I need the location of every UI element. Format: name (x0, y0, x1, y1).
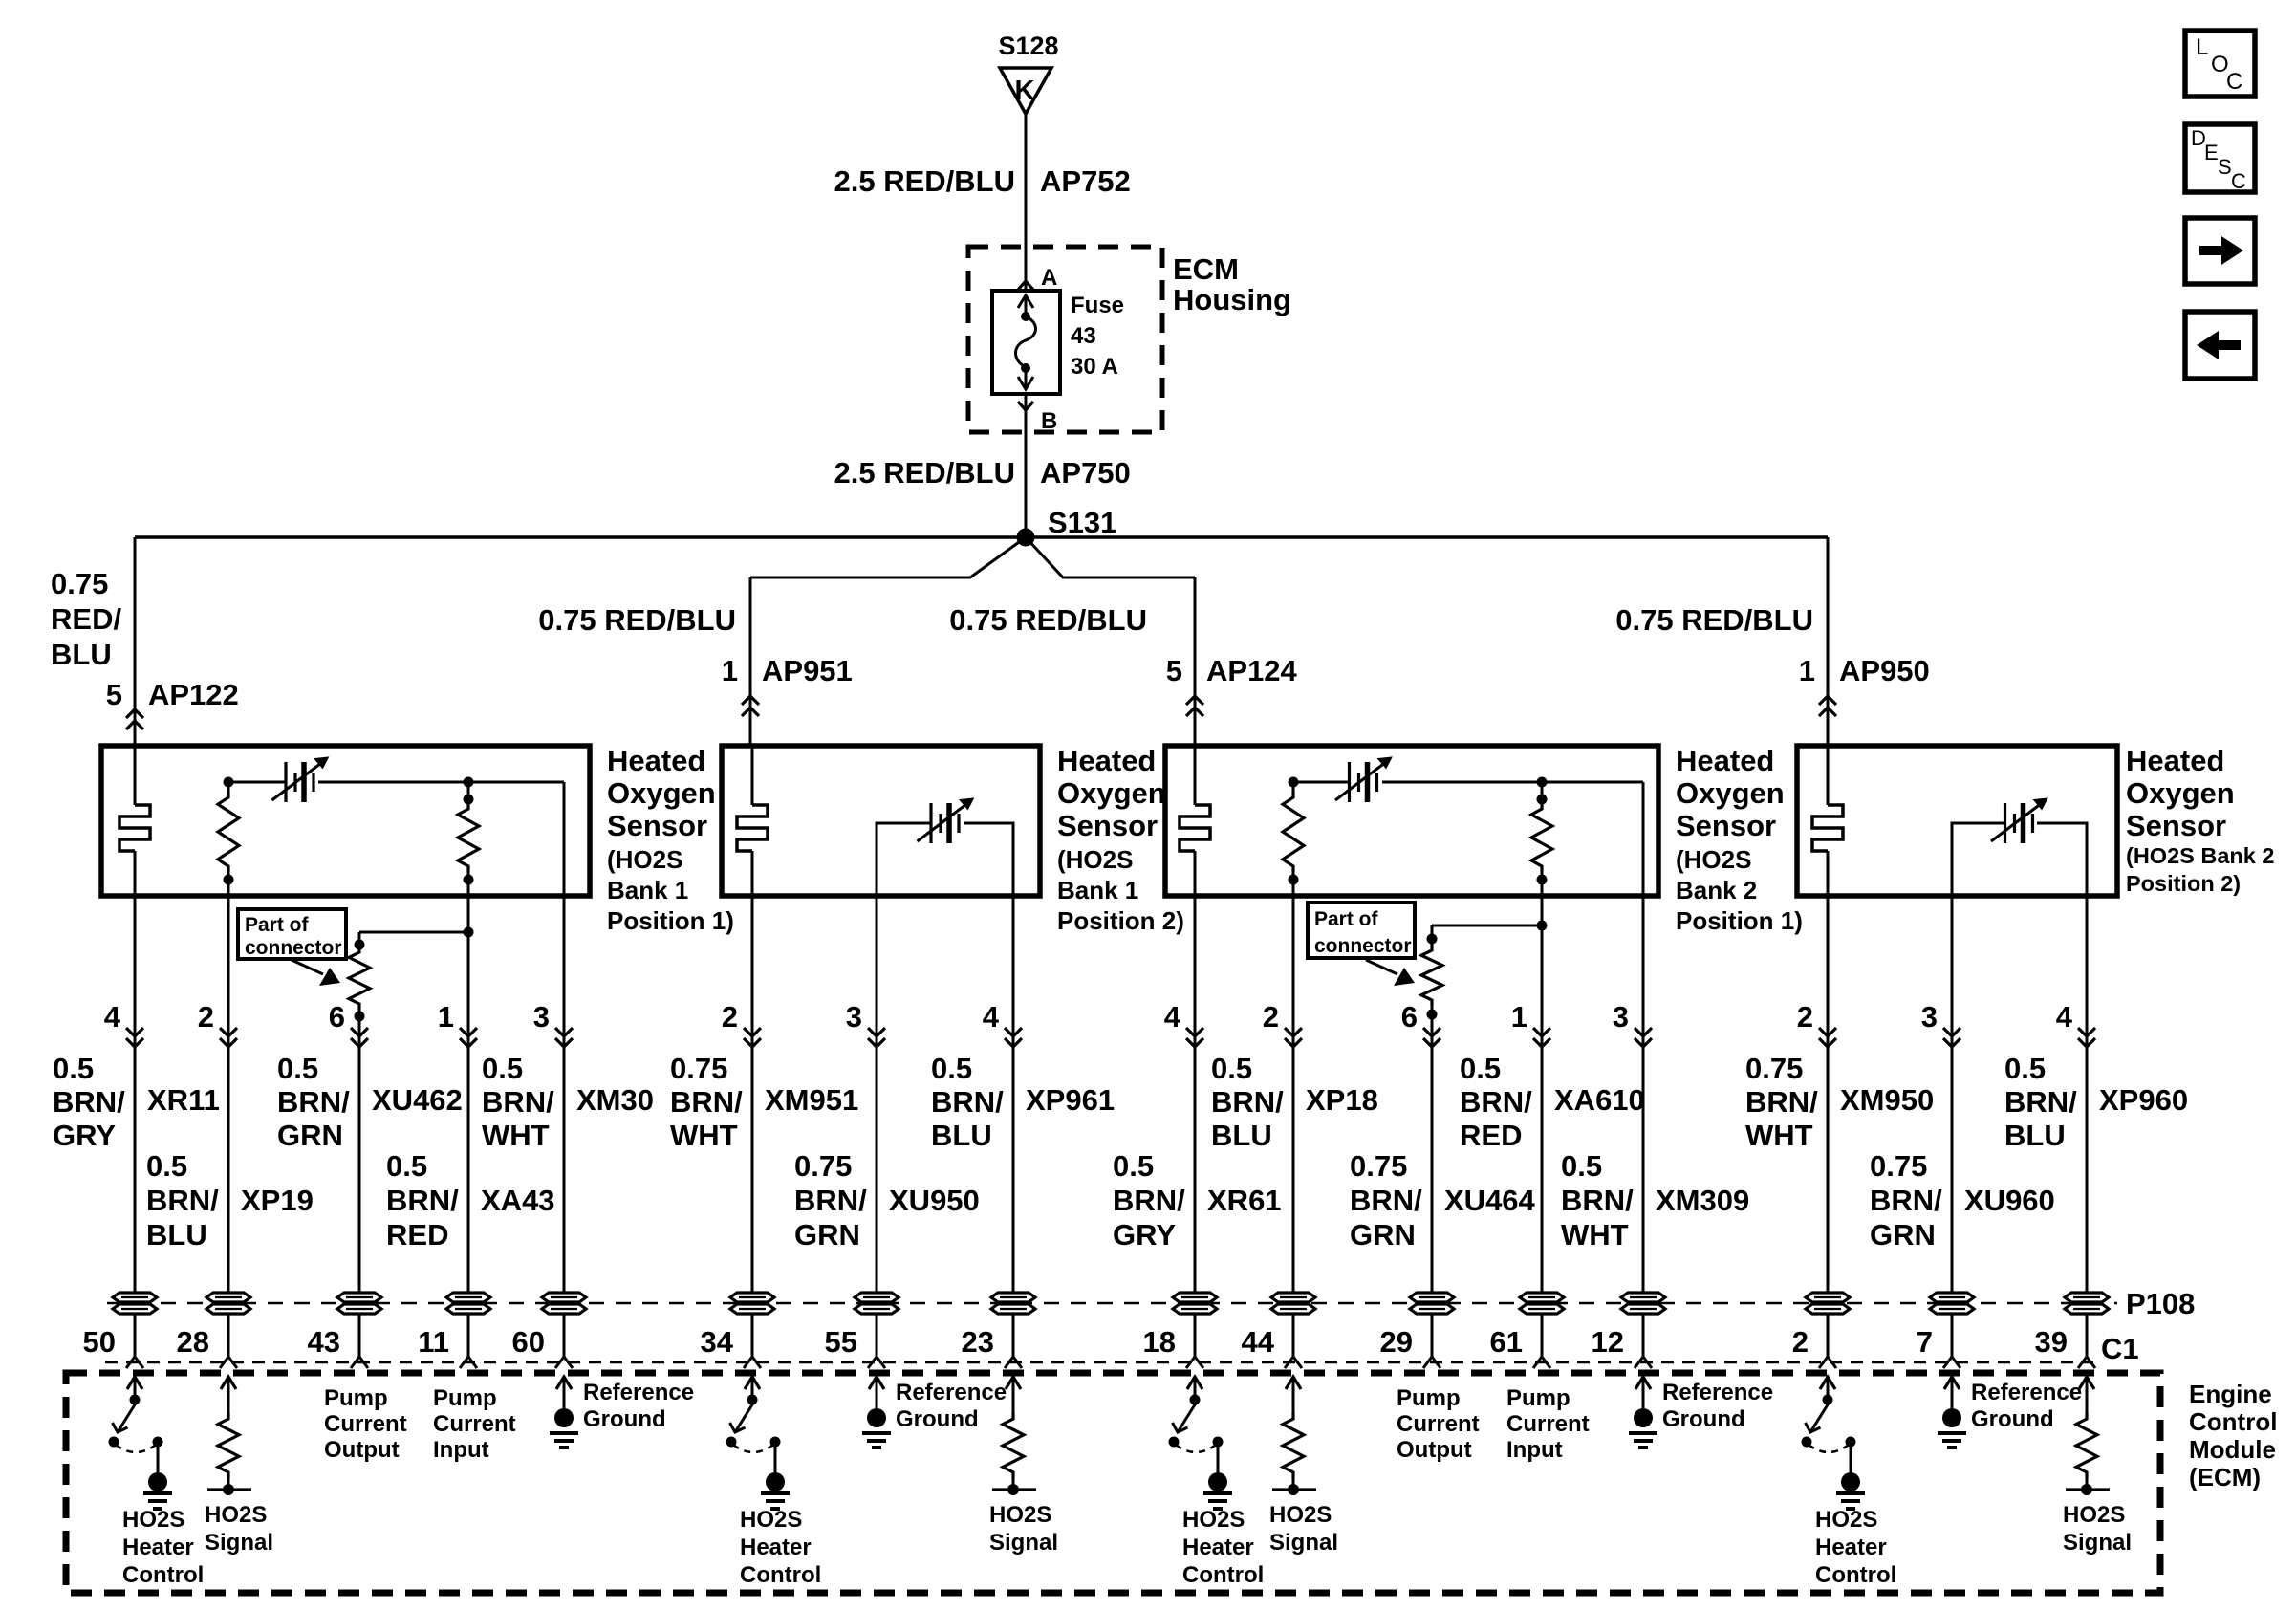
svg-text:Signal: Signal (205, 1530, 273, 1556)
svg-text:0.5: 0.5 (2004, 1052, 2046, 1085)
svg-text:Current: Current (1397, 1411, 1480, 1437)
icon box forward arrow (2185, 218, 2255, 284)
inline terminals on AP950 (1819, 696, 1836, 705)
svg-text:Engine: Engine (2189, 1380, 2272, 1408)
internal wire B2S1 (cell bus) (1293, 781, 1349, 784)
icon box LOC (2185, 31, 2255, 97)
svg-text:Reference: Reference (1662, 1380, 1773, 1405)
svg-text:7: 7 (1917, 1325, 1933, 1359)
svg-text:BRN/: BRN/ (53, 1085, 125, 1119)
svg-text:0.75: 0.75 (51, 567, 108, 600)
wire XU950 (sensor pin 3 to ECM 55) (876, 896, 878, 1357)
svg-text:XP19: XP19 (241, 1184, 314, 1217)
svg-text:4: 4 (1164, 1000, 1181, 1034)
svg-text:Position 1): Position 1) (607, 906, 734, 935)
svg-text:0.75: 0.75 (1745, 1052, 1803, 1085)
svg-text:0.5: 0.5 (1211, 1052, 1252, 1085)
svg-text:55: 55 (825, 1325, 857, 1359)
svg-text:BRN/: BRN/ (1113, 1184, 1185, 1217)
part of connector arrow (B2S1) (1366, 960, 1397, 974)
svg-text:Heater: Heater (122, 1535, 194, 1560)
ECM connector C1 terminal (XM30) (555, 1357, 573, 1368)
wire XA610 (B2S1 pin 1 to ECM 61) (1541, 896, 1544, 1357)
svg-text:Heated: Heated (2126, 744, 2224, 777)
svg-text:3: 3 (1921, 1000, 1938, 1034)
svg-text:0.5: 0.5 (53, 1052, 94, 1085)
inline terminal chevrons (XM951) (744, 1028, 761, 1036)
svg-text:Output: Output (324, 1437, 400, 1463)
svg-text:3: 3 (1613, 1000, 1629, 1034)
svg-text:BRN/: BRN/ (1745, 1085, 1818, 1119)
svg-text:Heated: Heated (1676, 744, 1774, 777)
wire XA43 (B1S1 pin 1 to ECM 11) (467, 896, 470, 1357)
svg-text:GRN: GRN (277, 1119, 343, 1152)
svg-text:E: E (2204, 141, 2219, 164)
svg-text:HO2S: HO2S (1815, 1507, 1877, 1533)
inline terminal chevrons (XP961) (1005, 1028, 1022, 1036)
svg-text:0.5: 0.5 (146, 1149, 187, 1183)
inline terminal chevrons (XM30) (555, 1028, 573, 1036)
heated oxygen sensor box (Bank 1 Position 1) (101, 746, 590, 896)
sensor cell B2S1 (1348, 762, 1351, 802)
svg-text:XM951: XM951 (765, 1083, 858, 1117)
svg-text:0.75 RED/BLU: 0.75 RED/BLU (538, 603, 736, 637)
svg-text:WHT: WHT (482, 1119, 550, 1152)
resistor HO2S signal (ECM pin 23) (1006, 1377, 1021, 1389)
svg-text:XU464: XU464 (1444, 1184, 1536, 1217)
svg-text:Oxygen: Oxygen (1057, 776, 1166, 810)
svg-text:Position 2): Position 2) (2126, 871, 2241, 896)
internal wire B1S1 to pin 3 (563, 782, 566, 896)
svg-text:XA610: XA610 (1554, 1083, 1645, 1117)
svg-text:43: 43 (1071, 323, 1096, 349)
svg-text:Output: Output (1397, 1437, 1472, 1463)
internal wire B1S1 (cell bus) (228, 781, 286, 784)
svg-text:HO2S: HO2S (740, 1507, 802, 1533)
svg-text:60: 60 (512, 1325, 545, 1359)
svg-text:BRN/: BRN/ (277, 1085, 350, 1119)
svg-text:BRN/: BRN/ (482, 1085, 554, 1119)
svg-text:A: A (1041, 265, 1057, 291)
svg-text:0.5: 0.5 (277, 1052, 318, 1085)
svg-text:Control: Control (122, 1562, 204, 1588)
wire AP122 (bus to HO2S B1S1 pin 5) (134, 537, 137, 746)
svg-text:XR11: XR11 (147, 1083, 220, 1117)
svg-text:0.5: 0.5 (1113, 1149, 1154, 1183)
svg-text:Pump: Pump (324, 1385, 388, 1411)
svg-text:(HO2S Bank 2: (HO2S Bank 2 (2126, 843, 2274, 868)
inline terminal chevrons (XA43) (460, 1028, 477, 1036)
dashed connector line C1 (105, 1361, 2093, 1364)
pin A of ECM housing (1018, 281, 1033, 290)
reference ground (ECM pin 60) (556, 1377, 572, 1389)
svg-text:2.5 RED/BLU: 2.5 RED/BLU (834, 456, 1015, 490)
inline connector P108 (XA43) (446, 1293, 490, 1302)
wire XU960 (sensor pin 3 to ECM 7) (1951, 896, 1954, 1357)
wire XM951 (sensor pin 2 to ECM 34) (751, 896, 754, 1357)
svg-text:BLU: BLU (2004, 1119, 2066, 1152)
inline connector P108 (XM309) (1621, 1293, 1665, 1302)
wire XP961 (sensor pin 4 to ECM 23) (1012, 896, 1015, 1357)
svg-text:XP18: XP18 (1306, 1083, 1378, 1117)
svg-text:BRN/: BRN/ (1870, 1184, 1942, 1217)
ECM connector C1 terminal (XP18) (1285, 1357, 1302, 1368)
ECM connector C1 terminal (XU960) (1943, 1357, 1960, 1368)
svg-text:(ECM): (ECM) (2189, 1463, 2261, 1491)
svg-text:XU950: XU950 (889, 1184, 980, 1217)
internal cell wire B2S2 (1952, 823, 2004, 896)
part of connector callout box (B2S1) (1308, 903, 1415, 958)
inline terminal chevrons (XU462) (351, 1028, 368, 1036)
svg-text:BRN/: BRN/ (146, 1184, 219, 1217)
svg-text:RED/: RED/ (51, 602, 121, 636)
svg-text:Housing: Housing (1173, 283, 1291, 316)
svg-text:BRN/: BRN/ (794, 1184, 867, 1217)
svg-text:23: 23 (962, 1325, 994, 1359)
inline terminal chevrons (XP19) (220, 1028, 237, 1036)
internal cell wire B1S2 (877, 823, 931, 896)
svg-text:HO2S: HO2S (122, 1507, 184, 1533)
inline connector P108 (XP960) (2065, 1293, 2109, 1302)
svg-text:5: 5 (1166, 654, 1182, 687)
dashed connector line P108 (107, 1302, 2117, 1305)
svg-text:BRN/: BRN/ (1561, 1184, 1634, 1217)
wire XR11 (sensor pin 4 to ECM 50) (134, 896, 137, 1357)
svg-text:0.75: 0.75 (794, 1149, 852, 1183)
svg-text:ECM: ECM (1173, 252, 1239, 286)
svg-text:Ground: Ground (583, 1406, 666, 1432)
svg-text:Signal: Signal (1269, 1530, 1338, 1556)
svg-text:BLU: BLU (51, 638, 112, 671)
wire XM950 (sensor pin 2 to ECM 2) (1827, 896, 1830, 1357)
svg-text:RED: RED (386, 1218, 448, 1252)
wire XM309 (sensor pin 3 to ECM 12) (1642, 896, 1645, 1357)
resistor HO2S signal (ECM pin 39) (2079, 1377, 2094, 1389)
svg-text:Heated: Heated (1057, 744, 1156, 777)
wire XP18 (sensor pin 2 to ECM 44) (1292, 896, 1295, 1357)
pin B of ECM housing (1018, 402, 1033, 410)
inline terminal chevrons (XU960) (1943, 1028, 1960, 1036)
svg-text:Sensor: Sensor (2126, 809, 2226, 842)
svg-text:HO2S: HO2S (1269, 1502, 1332, 1528)
svg-text:Reference: Reference (1971, 1380, 2082, 1405)
svg-text:2: 2 (1263, 1000, 1279, 1034)
svg-text:Sensor: Sensor (607, 809, 707, 842)
svg-text:GRN: GRN (794, 1218, 860, 1252)
svg-text:WHT: WHT (1745, 1119, 1813, 1152)
ECM connector C1 terminal (XA43) (460, 1357, 477, 1368)
svg-text:GRN: GRN (1870, 1218, 1936, 1252)
svg-text:Current: Current (1506, 1411, 1590, 1437)
reference ground (ECM pin 7) (1944, 1377, 1960, 1389)
svg-text:XP960: XP960 (2099, 1083, 2188, 1117)
svg-text:RED: RED (1460, 1119, 1522, 1152)
svg-text:XM309: XM309 (1656, 1184, 1749, 1217)
svg-text:HO2S: HO2S (2063, 1502, 2125, 1528)
ECM connector C1 terminal (XM950) (1819, 1357, 1836, 1368)
svg-text:C: C (2231, 169, 2246, 193)
inline connector P108 (XR11) (113, 1293, 157, 1302)
svg-text:S128: S128 (998, 32, 1058, 60)
inline terminal chevrons (XM950) (1819, 1028, 1836, 1036)
svg-text:BLU: BLU (1211, 1119, 1272, 1152)
svg-text:11: 11 (418, 1325, 449, 1359)
wire AP750 (fuse B to splice S131) (1025, 394, 1028, 537)
svg-text:AP950: AP950 (1839, 654, 1930, 687)
svg-text:Pump: Pump (1397, 1385, 1461, 1411)
svg-text:3: 3 (533, 1000, 550, 1034)
svg-text:44: 44 (1242, 1325, 1275, 1359)
switch HO2S heater control (ECM pin 18) (1187, 1377, 1202, 1389)
svg-text:Reference: Reference (896, 1380, 1007, 1405)
svg-text:34: 34 (701, 1325, 734, 1359)
svg-text:XA43: XA43 (481, 1184, 555, 1217)
svg-text:Current: Current (324, 1411, 407, 1437)
svg-text:XP961: XP961 (1026, 1083, 1115, 1117)
svg-text:XR61: XR61 (1207, 1184, 1282, 1217)
sensor cell B1S1 (284, 762, 287, 802)
svg-text:Oxygen: Oxygen (2126, 776, 2235, 810)
svg-text:BRN/: BRN/ (670, 1085, 743, 1119)
wire AP752 (S128 to ECM housing) (1025, 114, 1028, 291)
heated oxygen sensor box (Bank 2 Position 1) (1165, 746, 1658, 896)
svg-text:Reference: Reference (583, 1380, 694, 1405)
svg-text:XU960: XU960 (1964, 1184, 2055, 1217)
splice branch diagonals and mid bus (750, 537, 1026, 577)
heated oxygen sensor box (Bank 1 Position 2) (722, 746, 1040, 896)
svg-text:AP124: AP124 (1206, 654, 1298, 687)
svg-text:L: L (2196, 34, 2208, 60)
ECM connector C1 terminal (XP960) (2078, 1357, 2095, 1368)
wire XM30 (sensor pin 3 to ECM 60) (563, 896, 566, 1357)
inline terminals on AP124 (1186, 696, 1203, 705)
wire AP950 (bus to HO2S B2S2 pin 1) (1827, 537, 1830, 746)
svg-text:BRN/: BRN/ (2004, 1085, 2077, 1119)
svg-text:C1: C1 (2101, 1332, 2139, 1365)
svg-text:WHT: WHT (670, 1119, 738, 1152)
svg-text:Control: Control (2189, 1407, 2277, 1436)
svg-text:50: 50 (83, 1325, 116, 1359)
svg-text:Heater: Heater (1815, 1535, 1887, 1560)
switch HO2S heater control (ECM pin 2) (1820, 1377, 1835, 1389)
svg-text:BRN/: BRN/ (386, 1184, 459, 1217)
svg-text:XU462: XU462 (372, 1083, 463, 1117)
inline connector P108 (XU462) (337, 1293, 381, 1302)
inline connector P108 (XU950) (855, 1293, 899, 1302)
part of connector resistor (B1S1 pin 6) (355, 940, 365, 950)
svg-text:1: 1 (1799, 654, 1815, 687)
svg-text:BRN/: BRN/ (1211, 1085, 1284, 1119)
reference ground (ECM pin 55) (869, 1377, 884, 1389)
svg-text:2: 2 (1797, 1000, 1813, 1034)
svg-text:AP750: AP750 (1040, 456, 1131, 490)
inline terminals on AP951 (742, 696, 759, 705)
svg-text:Oxygen: Oxygen (1676, 776, 1785, 810)
inline terminal chevrons (XM309) (1635, 1028, 1652, 1036)
icon box DESC (2185, 124, 2255, 192)
ECM connector C1 terminal (XM309) (1635, 1357, 1652, 1368)
heater element B1S1 (134, 746, 137, 805)
inline terminal chevrons (XA610) (1533, 1028, 1550, 1036)
svg-text:connector: connector (245, 937, 342, 959)
svg-text:Bank 1: Bank 1 (1057, 876, 1138, 904)
svg-text:(HO2S: (HO2S (1676, 845, 1751, 874)
ECM connector C1 terminal (XA610) (1533, 1357, 1550, 1368)
ECM connector C1 terminal (XR11) (126, 1357, 143, 1368)
ECM connector C1 terminal (XP19) (220, 1357, 237, 1368)
resistor HO2S signal (ECM pin 44) (1286, 1377, 1301, 1389)
svg-text:1: 1 (1511, 1000, 1527, 1034)
resistor HO2S signal (ECM pin 28) (221, 1377, 236, 1389)
part of connector arrow (B1S1) (292, 960, 323, 974)
inline connector P108 (XU464) (1410, 1293, 1454, 1302)
svg-text:Input: Input (433, 1437, 489, 1463)
svg-text:18: 18 (1143, 1325, 1176, 1359)
inline connector P108 (XR61) (1173, 1293, 1217, 1302)
ECM connector C1 terminal (XU462) (351, 1357, 368, 1368)
svg-text:Part of: Part of (245, 914, 310, 936)
svg-text:0.5: 0.5 (931, 1052, 972, 1085)
svg-text:12: 12 (1592, 1325, 1624, 1359)
svg-text:43: 43 (308, 1325, 340, 1359)
svg-text:C: C (2226, 69, 2242, 95)
svg-text:AP752: AP752 (1040, 164, 1131, 198)
wire AP124 (bus to HO2S B2S1 pin 5) (1194, 577, 1197, 746)
reference ground (ECM pin 12) (1635, 1377, 1651, 1389)
svg-text:0.5: 0.5 (1460, 1052, 1501, 1085)
svg-text:Pump: Pump (433, 1385, 497, 1411)
svg-text:4: 4 (104, 1000, 121, 1034)
inline connector P108 (XM30) (542, 1293, 586, 1302)
ECM connector C1 terminal (XM951) (744, 1357, 761, 1368)
svg-text:Heater: Heater (1182, 1535, 1254, 1560)
ECM connector C1 terminal (XP961) (1005, 1357, 1022, 1368)
svg-text:BLU: BLU (146, 1218, 207, 1252)
heater element B1S2 (751, 746, 754, 805)
inline terminal chevrons (XR11) (126, 1028, 143, 1036)
inline terminal chevrons (XU464) (1423, 1028, 1440, 1036)
svg-text:HO2S: HO2S (1182, 1507, 1245, 1533)
ECM connector C1 terminal (XU950) (868, 1357, 885, 1368)
svg-text:Part of: Part of (1314, 908, 1379, 930)
svg-text:Signal: Signal (989, 1530, 1058, 1556)
svg-text:Heater: Heater (740, 1535, 812, 1560)
svg-text:Ground: Ground (1971, 1406, 2054, 1432)
svg-text:Pump: Pump (1506, 1385, 1570, 1411)
icon box back arrow (2185, 312, 2255, 379)
svg-text:WHT: WHT (1561, 1218, 1629, 1252)
svg-text:XM950: XM950 (1840, 1083, 1934, 1117)
svg-text:0.75 RED/BLU: 0.75 RED/BLU (1615, 603, 1813, 637)
svg-text:Signal: Signal (2063, 1530, 2132, 1556)
svg-text:Ground: Ground (1662, 1406, 1745, 1432)
svg-text:1: 1 (722, 654, 738, 687)
svg-text:0.75: 0.75 (1350, 1149, 1407, 1183)
svg-text:B: B (1041, 408, 1057, 434)
svg-text:BRN/: BRN/ (1460, 1085, 1532, 1119)
svg-text:0.75 RED/BLU: 0.75 RED/BLU (949, 603, 1147, 637)
svg-text:AP122: AP122 (148, 678, 239, 711)
svg-text:Fuse: Fuse (1071, 293, 1124, 318)
ECM connector C1 terminal (XU464) (1423, 1357, 1440, 1368)
svg-text:Sensor: Sensor (1057, 809, 1158, 842)
fuse 43 30 A (992, 291, 1060, 394)
switch HO2S heater control (ECM pin 50) (127, 1377, 142, 1389)
svg-text:0.5: 0.5 (482, 1052, 523, 1085)
part of connector resistor (B2S1 pin 6) (1427, 934, 1438, 945)
internal resistor B1S1 left (pin 2) (224, 777, 234, 788)
svg-text:39: 39 (2035, 1325, 2068, 1359)
svg-text:S: S (2218, 155, 2232, 179)
inline terminals on AP122 (126, 709, 143, 718)
wire AP951 (bus to HO2S B1S2 pin 1) (749, 577, 752, 746)
svg-text:0.75: 0.75 (1870, 1149, 1927, 1183)
heated oxygen sensor box (Bank 2 Position 2) (1797, 746, 2117, 896)
internal resistor B2S1 left (pin 2) (1289, 777, 1299, 788)
svg-text:Sensor: Sensor (1676, 809, 1776, 842)
svg-text:XM30: XM30 (576, 1083, 654, 1117)
svg-text:P108: P108 (2126, 1287, 2195, 1320)
heater element B2S2 (1827, 746, 1830, 805)
svg-text:29: 29 (1380, 1325, 1413, 1359)
engine control module dashed box (66, 1373, 2160, 1593)
svg-text:Position 1): Position 1) (1676, 906, 1803, 935)
inline terminal chevrons (XP18) (1285, 1028, 1302, 1036)
bus wire from S131 (left to AP122, right to AP950) (135, 535, 1828, 539)
svg-text:2.5 RED/BLU: 2.5 RED/BLU (834, 164, 1015, 198)
internal resistor B1S1 right (pin 1) (464, 777, 474, 788)
svg-text:BRN/: BRN/ (931, 1085, 1004, 1119)
wire XU462 (pin 6 branch to ECM 43) (358, 1036, 361, 1357)
svg-text:2: 2 (198, 1000, 214, 1034)
svg-text:GRN: GRN (1350, 1218, 1416, 1252)
internal wire B2S1 to pin 3 (1642, 782, 1645, 896)
internal resistor B2S1 right (pin 1) (1537, 777, 1548, 788)
switch HO2S heater control (ECM pin 34) (745, 1377, 760, 1389)
svg-text:Oxygen: Oxygen (607, 776, 716, 810)
jog branch to pin 6 resistor (B2S1) (1432, 925, 1542, 927)
wire XR61 (sensor pin 4 to ECM 18) (1194, 896, 1197, 1357)
svg-text:4: 4 (983, 1000, 1000, 1034)
inline connector P108 (XP18) (1271, 1293, 1315, 1302)
svg-text:S131: S131 (1048, 506, 1116, 539)
svg-text:6: 6 (329, 1000, 345, 1034)
heater element B2S1 (1194, 746, 1197, 805)
inline connector P108 (XP19) (206, 1293, 250, 1302)
svg-text:AP951: AP951 (762, 654, 853, 687)
svg-text:GRY: GRY (1113, 1218, 1176, 1252)
sensor cell B1S2 (929, 803, 932, 843)
svg-text:6: 6 (1401, 1000, 1418, 1034)
svg-text:0.75: 0.75 (670, 1052, 727, 1085)
svg-text:Bank 1: Bank 1 (607, 876, 688, 904)
svg-text:Module: Module (2189, 1435, 2276, 1464)
svg-text:Heated: Heated (607, 744, 705, 777)
inline terminal chevrons (XU950) (868, 1028, 885, 1036)
svg-text:HO2S: HO2S (989, 1502, 1051, 1528)
inline connector P108 (XM950) (1806, 1293, 1850, 1302)
jog branch to pin 6 resistor (B1S1) (359, 931, 468, 934)
wire XP960 (sensor pin 4 to ECM 39) (2086, 896, 2089, 1357)
ECM housing dashed box (968, 247, 1162, 432)
svg-text:28: 28 (177, 1325, 209, 1359)
svg-text:1: 1 (438, 1000, 454, 1034)
inline connector P108 (XM951) (730, 1293, 774, 1302)
svg-text:Current: Current (433, 1411, 516, 1437)
svg-text:Bank 2: Bank 2 (1676, 876, 1757, 904)
svg-text:30 A: 30 A (1071, 354, 1118, 380)
svg-text:61: 61 (1490, 1325, 1523, 1359)
